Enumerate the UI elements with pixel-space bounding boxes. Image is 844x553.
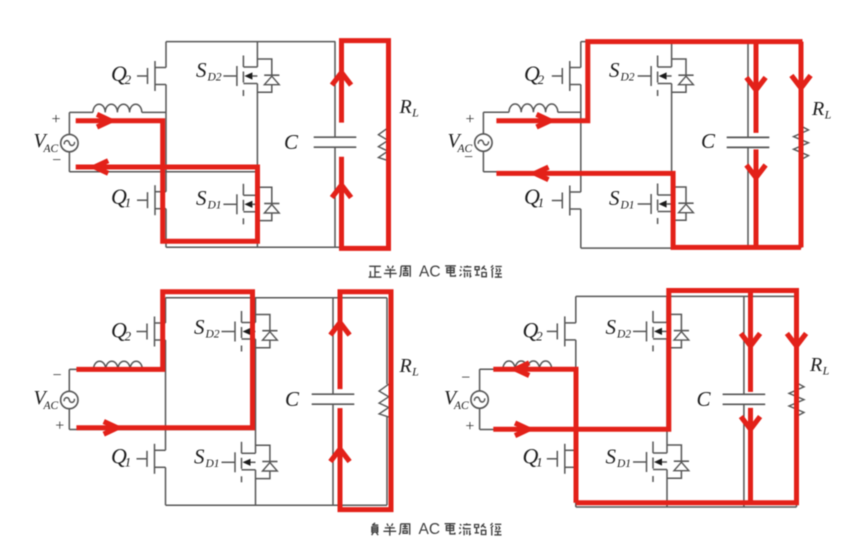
svg-text:C: C bbox=[701, 129, 716, 153]
svg-text:L: L bbox=[822, 363, 830, 377]
svg-text:D1: D1 bbox=[620, 199, 635, 211]
svg-text:L: L bbox=[411, 105, 419, 119]
svg-text:S: S bbox=[194, 315, 205, 339]
svg-text:+: + bbox=[465, 418, 474, 435]
svg-text:AC: AC bbox=[43, 400, 59, 412]
svg-text:S: S bbox=[609, 58, 620, 82]
svg-text:S: S bbox=[606, 315, 617, 339]
svg-text:R: R bbox=[809, 354, 822, 376]
svg-text:D1: D1 bbox=[616, 458, 631, 470]
svg-text:+: + bbox=[55, 418, 64, 435]
svg-text:1: 1 bbox=[125, 195, 132, 210]
svg-text:L: L bbox=[411, 364, 419, 378]
svg-text:+: + bbox=[465, 111, 474, 128]
svg-text:D2: D2 bbox=[207, 71, 222, 83]
svg-text:L: L bbox=[824, 107, 832, 121]
svg-text:AC: AC bbox=[453, 400, 469, 412]
svg-text:R: R bbox=[399, 355, 412, 377]
svg-text:2: 2 bbox=[536, 329, 543, 344]
svg-text:−: − bbox=[52, 152, 61, 169]
svg-text:C: C bbox=[285, 387, 300, 411]
svg-text:S: S bbox=[606, 445, 617, 469]
svg-text:D2: D2 bbox=[616, 328, 631, 340]
svg-text:1: 1 bbox=[125, 455, 132, 470]
svg-text:2: 2 bbox=[125, 72, 132, 87]
svg-text:D1: D1 bbox=[205, 458, 220, 470]
svg-text:C: C bbox=[284, 130, 299, 154]
svg-text:S: S bbox=[196, 186, 207, 210]
svg-text:C: C bbox=[697, 387, 712, 411]
svg-text:D1: D1 bbox=[207, 199, 222, 211]
svg-text:S: S bbox=[194, 445, 205, 469]
svg-text:D2: D2 bbox=[620, 71, 635, 83]
svg-text:−: − bbox=[52, 367, 61, 384]
svg-text:AC: AC bbox=[419, 521, 441, 538]
svg-text:S: S bbox=[609, 186, 620, 210]
svg-text:1: 1 bbox=[536, 455, 543, 470]
svg-text:R: R bbox=[399, 96, 412, 118]
svg-text:2: 2 bbox=[125, 329, 132, 344]
svg-text:−: − bbox=[461, 370, 470, 387]
svg-text:R: R bbox=[811, 98, 824, 120]
svg-text:2: 2 bbox=[538, 72, 545, 87]
svg-text:+: + bbox=[51, 111, 60, 128]
svg-text:S: S bbox=[196, 58, 207, 82]
svg-text:D2: D2 bbox=[205, 328, 220, 340]
svg-text:−: − bbox=[464, 149, 473, 166]
svg-text:AC: AC bbox=[419, 263, 441, 280]
svg-text:1: 1 bbox=[538, 195, 545, 210]
